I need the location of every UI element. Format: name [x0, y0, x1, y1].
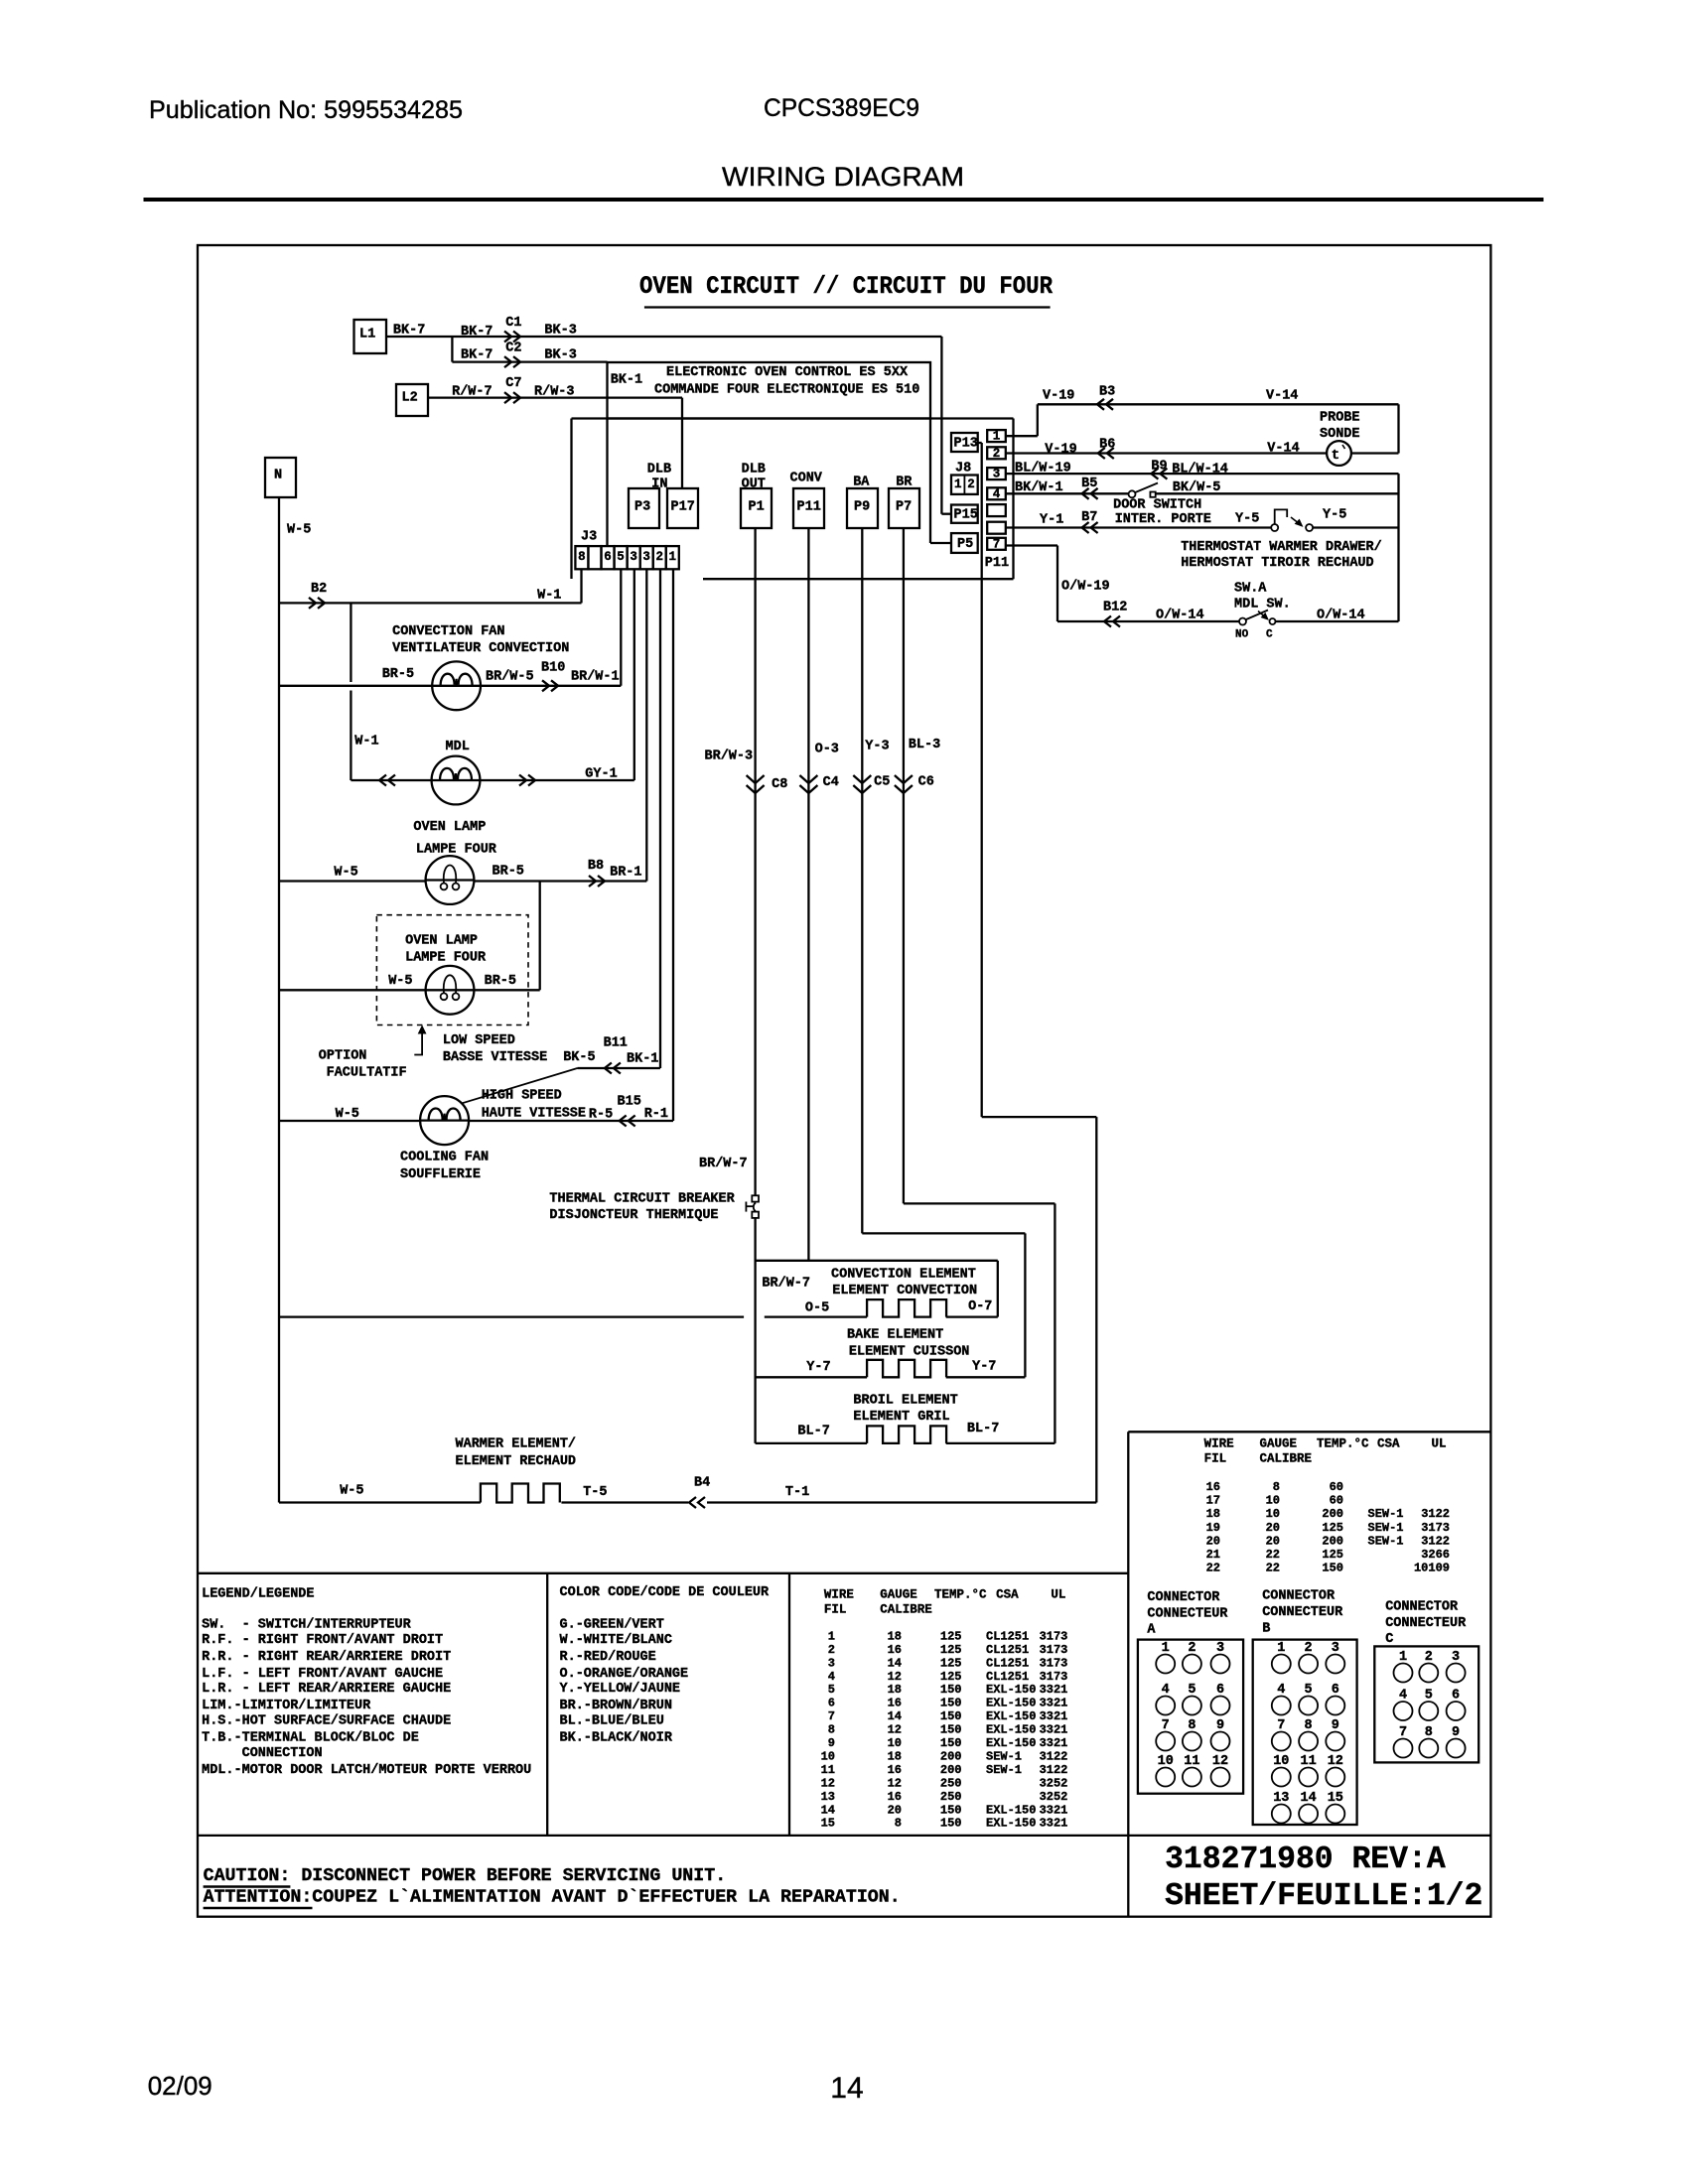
svg-text:SOUFFLERIE: SOUFFLERIE	[400, 1167, 481, 1182]
svg-text:MDL.-MOTOR DOOR LATCH/MOTEUR P: MDL.-MOTOR DOOR LATCH/MOTEUR PORTE VERRO…	[202, 1763, 531, 1778]
svg-text:2: 2	[655, 550, 663, 564]
svg-text:W-5: W-5	[334, 866, 357, 881]
dashed option box	[376, 915, 528, 1025]
wire broil element left BL-7	[756, 1442, 868, 1444]
svg-text:3173: 3173	[1421, 1521, 1450, 1535]
svg-text:T.B.-TERMINAL BLOCK/BLOC DE: T.B.-TERMINAL BLOCK/BLOC DE	[202, 1731, 419, 1746]
svg-text:12: 12	[888, 1670, 902, 1684]
svg-text:CALIBRE: CALIBRE	[1260, 1451, 1313, 1465]
svg-text:SHEET/FEUILLE:1/2: SHEET/FEUILLE:1/2	[1165, 1879, 1482, 1914]
wire BK-7 branch to C2	[452, 360, 607, 362]
svg-text:10: 10	[888, 1736, 902, 1750]
svg-text:1: 1	[828, 1629, 835, 1643]
svg-text:OVEN LAMP: OVEN LAMP	[413, 820, 486, 835]
svg-text:L2: L2	[402, 390, 418, 405]
table box left edge	[1127, 1432, 1129, 1916]
diagram title underline	[644, 306, 1051, 308]
svg-text:P9: P9	[854, 499, 870, 514]
svg-text:CAUTION: DISCONNECT POWER BEFO: CAUTION: DISCONNECT POWER BEFORE SERVICI…	[204, 1866, 727, 1886]
terminal L2	[396, 384, 428, 416]
svg-text:BL/W-14: BL/W-14	[1172, 462, 1228, 477]
svg-text:SW. - SWITCH/INTERRUPTEUR: SW. - SWITCH/INTERRUPTEUR	[202, 1618, 412, 1633]
wire L1 BK-7 to C1	[386, 336, 941, 338]
svg-text:Y-3: Y-3	[865, 740, 889, 754]
svg-text:20: 20	[1266, 1521, 1280, 1535]
svg-text:CSA: CSA	[996, 1587, 1019, 1601]
probe sensor	[1327, 441, 1351, 466]
svg-text:B7: B7	[1081, 510, 1097, 525]
svg-text:CL1251: CL1251	[986, 1643, 1029, 1657]
svg-text:P17: P17	[671, 499, 695, 514]
wire P11 bottom bus	[703, 578, 1014, 580]
svg-text:B2: B2	[311, 582, 327, 597]
motor M1 convection fan	[432, 661, 481, 710]
svg-text:200: 200	[1322, 1507, 1343, 1521]
svg-text:V-14: V-14	[1267, 441, 1299, 456]
svg-text:20: 20	[888, 1803, 902, 1817]
plug P5	[951, 533, 978, 553]
svg-text:3266: 3266	[1421, 1548, 1450, 1562]
svg-text:21: 21	[1206, 1548, 1220, 1562]
wire R/W-3 down to P17	[681, 398, 683, 488]
svg-text:16: 16	[888, 1643, 902, 1657]
wire right bus V	[1397, 474, 1399, 621]
svg-text:O/W-19: O/W-19	[1061, 579, 1110, 594]
wire bake element left Y-7	[756, 1376, 868, 1378]
svg-text:16: 16	[888, 1697, 902, 1710]
svg-text:W-5: W-5	[340, 1484, 363, 1499]
svg-text:2: 2	[967, 478, 975, 491]
svg-text:C: C	[1266, 629, 1273, 641]
svg-text:INTER. PORTE: INTER. PORTE	[1115, 512, 1211, 527]
svg-text:SEW-1: SEW-1	[986, 1763, 1022, 1777]
svg-text:BK-7: BK-7	[461, 347, 492, 362]
svg-text:BK/W-5: BK/W-5	[1173, 480, 1221, 495]
svg-text:BK-1: BK-1	[627, 1051, 658, 1066]
connector B pin chart	[1253, 1640, 1357, 1825]
svg-text:TEMP.°C: TEMP.°C	[934, 1587, 987, 1601]
svg-text:BK/W-1: BK/W-1	[1015, 480, 1063, 495]
svg-text:BK.-BLACK/NOIR: BK.-BLACK/NOIR	[560, 1731, 673, 1746]
wire Y-5 right	[1313, 526, 1399, 528]
svg-text:COMMANDE FOUR ELECTRONIQUE ES: COMMANDE FOUR ELECTRONIQUE ES 510	[654, 382, 919, 397]
svg-text:22: 22	[1266, 1562, 1280, 1575]
svg-text:BK-7: BK-7	[393, 323, 425, 338]
svg-text:LIM.-LIMITOR/LIMITEUR: LIM.-LIMITOR/LIMITEUR	[202, 1699, 371, 1713]
svg-text:LAMPE FOUR: LAMPE FOUR	[405, 951, 487, 966]
svg-text:P13: P13	[954, 436, 978, 451]
connector A pin chart	[1138, 1640, 1243, 1794]
svg-text:60: 60	[1330, 1494, 1343, 1508]
svg-text:02/09: 02/09	[148, 2071, 212, 2101]
svg-text:BL-7: BL-7	[797, 1425, 829, 1439]
svg-text:SEW-1: SEW-1	[1368, 1507, 1404, 1521]
svg-text:3173: 3173	[1040, 1643, 1068, 1657]
svg-text:18: 18	[888, 1629, 902, 1643]
wire conv element right O-7	[946, 1315, 998, 1317]
svg-text:16: 16	[888, 1790, 902, 1804]
connector C5	[853, 775, 871, 793]
wire low speed diagonal	[462, 1068, 577, 1103]
svg-text:150: 150	[940, 1736, 962, 1750]
svg-text:6: 6	[604, 550, 612, 564]
svg-text:C6: C6	[918, 774, 934, 789]
svg-text:Y-5: Y-5	[1235, 511, 1259, 526]
svg-text:B4: B4	[694, 1475, 710, 1490]
svg-text:P5: P5	[957, 537, 973, 552]
svg-text:TEMP.°C: TEMP.°C	[1317, 1436, 1369, 1450]
svg-text:3173: 3173	[1040, 1629, 1068, 1643]
svg-text:BL-7: BL-7	[967, 1422, 999, 1436]
wire warmer middle T-5	[561, 1501, 688, 1503]
svg-text:3321: 3321	[1040, 1683, 1068, 1697]
svg-text:PROBE: PROBE	[1320, 410, 1360, 425]
svg-text:A: A	[1147, 1623, 1156, 1638]
svg-text:2: 2	[828, 1643, 835, 1657]
wire lamp1 right BR-5	[474, 880, 646, 882]
svg-text:O/W-14: O/W-14	[1317, 608, 1365, 622]
svg-text:150: 150	[940, 1803, 962, 1817]
svg-text:N: N	[274, 468, 282, 482]
svg-text:O-5: O-5	[805, 1300, 829, 1315]
svg-text:COLOR CODE/CODE DE COULEUR: COLOR CODE/CODE DE COULEUR	[560, 1585, 771, 1600]
svg-text:O/W-14: O/W-14	[1156, 608, 1204, 622]
motor M2 cooling fan	[420, 1096, 469, 1145]
svg-text:W.-WHITE/BLANC: W.-WHITE/BLANC	[560, 1633, 672, 1648]
wire BK-1 vertical to J3	[606, 419, 608, 547]
svg-text:CONNECTEUR: CONNECTEUR	[1147, 1606, 1228, 1621]
svg-text:150: 150	[940, 1683, 962, 1697]
svg-text:CL1251: CL1251	[986, 1629, 1029, 1643]
svg-text:3321: 3321	[1040, 1723, 1068, 1737]
svg-text:4: 4	[828, 1670, 835, 1684]
svg-text:P11: P11	[985, 556, 1009, 571]
terminal L1	[354, 320, 387, 353]
svg-text:1: 1	[954, 478, 962, 491]
attention underline	[204, 1907, 313, 1910]
svg-text:318271980 REV:A: 318271980 REV:A	[1165, 1843, 1446, 1877]
svg-text:CONNECTEUR: CONNECTEUR	[1385, 1616, 1467, 1631]
wire P1 vertical DLB OUT	[754, 528, 756, 1195]
plug P9	[847, 488, 878, 528]
svg-text:ATTENTION:COUPEZ L`ALIMENTATIO: ATTENTION:COUPEZ L`ALIMENTATION AVANT D`…	[204, 1888, 901, 1908]
svg-text:ELEMENT CONVECTION: ELEMENT CONVECTION	[832, 1284, 977, 1298]
caution band top line	[198, 1835, 1490, 1837]
svg-text:12: 12	[888, 1723, 902, 1737]
svg-text:P11: P11	[797, 499, 821, 514]
wire warmer right T-1	[707, 1501, 1096, 1503]
svg-text:P3: P3	[634, 499, 650, 514]
wire pin2 to probe	[1006, 452, 1327, 454]
svg-text:9: 9	[828, 1736, 835, 1750]
door switch S1	[1129, 490, 1136, 497]
svg-text:3321: 3321	[1040, 1697, 1068, 1710]
svg-text:17: 17	[1206, 1494, 1220, 1508]
svg-text:3: 3	[993, 468, 1001, 481]
svg-text:CL1251: CL1251	[986, 1670, 1029, 1684]
svg-text:C5: C5	[874, 774, 890, 789]
svg-text:T-1: T-1	[785, 1485, 809, 1500]
svg-text:B8: B8	[588, 859, 604, 874]
heating element warmer	[481, 1484, 560, 1503]
svg-text:WIRE: WIRE	[824, 1587, 854, 1601]
lamp DS2 oven lamp optional	[426, 966, 475, 1015]
wire J3 pin2 drop BK-1	[659, 569, 661, 1068]
svg-text:HERMOSTAT TIROIR RECHAUD: HERMOSTAT TIROIR RECHAUD	[1181, 556, 1373, 571]
svg-text:UL: UL	[1432, 1436, 1447, 1450]
svg-text:O-3: O-3	[815, 742, 839, 756]
svg-text:13: 13	[821, 1790, 835, 1804]
svg-text:BR-5: BR-5	[492, 864, 524, 879]
svg-text:DLB: DLB	[742, 462, 766, 477]
svg-text:WARMER ELEMENT/: WARMER ELEMENT/	[456, 1436, 577, 1451]
svg-text:B: B	[1262, 1621, 1270, 1636]
svg-text:HIGH SPEED: HIGH SPEED	[482, 1088, 562, 1103]
caution underline	[204, 1885, 291, 1888]
svg-text:14: 14	[821, 1803, 835, 1817]
svg-text:BR-5: BR-5	[485, 974, 516, 989]
svg-text:BK-3: BK-3	[544, 323, 576, 338]
svg-text:CALIBRE: CALIBRE	[880, 1603, 932, 1617]
svg-text:CONNECTOR: CONNECTOR	[1147, 1590, 1220, 1605]
conv element wire box	[756, 1260, 998, 1262]
connector C4	[799, 775, 817, 793]
header underline	[144, 199, 1543, 202]
svg-text:125: 125	[1322, 1548, 1343, 1562]
svg-text:CONNECTION: CONNECTION	[202, 1746, 323, 1761]
svg-text:BL.-BLUE/BLEU: BL.-BLUE/BLEU	[560, 1714, 664, 1729]
svg-text:UL: UL	[1051, 1587, 1065, 1601]
svg-text:BK-3: BK-3	[544, 347, 576, 362]
wire low speed BK	[578, 1067, 660, 1069]
svg-text:14: 14	[888, 1709, 902, 1723]
legend/colorcode divider	[546, 1573, 548, 1836]
switch SW.A MDL	[1239, 618, 1246, 625]
svg-text:125: 125	[1322, 1521, 1343, 1535]
wire lamp2 left W-5	[279, 989, 426, 991]
svg-text:EXL-150: EXL-150	[986, 1803, 1036, 1817]
thermostat warmer drawer switch	[1271, 524, 1278, 531]
svg-text:18: 18	[1206, 1507, 1220, 1521]
svg-text:BL/W-19: BL/W-19	[1015, 461, 1071, 476]
svg-text:L.R. - LEFT REAR/ARRIERE GAUCH: L.R. - LEFT REAR/ARRIERE GAUCHE	[202, 1682, 451, 1697]
wire lamp junction vertical	[539, 882, 541, 991]
svg-text:C8: C8	[772, 777, 787, 792]
svg-text:HAUTE VITESSE: HAUTE VITESSE	[482, 1106, 586, 1121]
svg-text:3: 3	[630, 550, 637, 564]
svg-text:BAKE ELEMENT: BAKE ELEMENT	[847, 1327, 943, 1342]
svg-text:EXL-150: EXL-150	[986, 1683, 1036, 1697]
wire high speed R	[469, 1120, 673, 1122]
svg-text:BK-5: BK-5	[563, 1050, 595, 1065]
svg-text:C: C	[1385, 1632, 1393, 1647]
svg-text:1: 1	[668, 550, 676, 564]
svg-text:CONNECTEUR: CONNECTEUR	[1262, 1605, 1343, 1620]
connector P11 pin boxes	[987, 430, 1006, 442]
svg-text:THERMOSTAT WARMER DRAWER/: THERMOSTAT WARMER DRAWER/	[1181, 540, 1382, 555]
wire lamp1 left W-5	[279, 880, 426, 882]
wire broil element right	[946, 1442, 1055, 1444]
wire P13 route down-right-down to warmer wire	[981, 443, 983, 1117]
svg-text:125: 125	[940, 1670, 962, 1684]
legend section top line	[198, 1572, 1128, 1574]
svg-text:3321: 3321	[1040, 1709, 1068, 1723]
svg-text:T-5: T-5	[583, 1485, 607, 1500]
wire J3 pin6 drop BR-1	[645, 569, 647, 881]
svg-text:20: 20	[1206, 1534, 1220, 1548]
svg-text:DLB: DLB	[647, 462, 671, 477]
svg-text:LOW SPEED: LOW SPEED	[443, 1033, 515, 1048]
wire neutral vertical W-5	[278, 497, 280, 1503]
option leader arrow	[414, 1030, 422, 1055]
svg-text:COOLING FAN: COOLING FAN	[400, 1150, 489, 1164]
svg-text:W-1: W-1	[537, 588, 561, 603]
svg-text:VENTILATEUR CONVECTION: VENTILATEUR CONVECTION	[392, 641, 569, 656]
wire pin4 BK/W right	[1156, 492, 1399, 494]
svg-text:BROIL ELEMENT: BROIL ELEMENT	[853, 1394, 957, 1409]
svg-text:B3: B3	[1099, 384, 1115, 399]
svg-text:SEW-1: SEW-1	[986, 1749, 1022, 1763]
wire P9 vertical BA	[861, 528, 863, 1233]
svg-text:LAMPE FOUR: LAMPE FOUR	[416, 842, 497, 857]
svg-text:3122: 3122	[1040, 1763, 1068, 1777]
svg-text:Y-7: Y-7	[806, 1360, 830, 1375]
svg-text:10: 10	[1266, 1507, 1280, 1521]
svg-text:3252: 3252	[1040, 1776, 1068, 1790]
svg-text:BK-1: BK-1	[611, 372, 642, 387]
svg-text:CONNECTOR: CONNECTOR	[1262, 1589, 1336, 1604]
svg-text:OPTION: OPTION	[319, 1049, 367, 1064]
wire MDL branch vertical	[350, 603, 352, 682]
svg-text:4: 4	[993, 487, 1001, 501]
svg-text:3173: 3173	[1040, 1670, 1068, 1684]
svg-text:BR/W-1: BR/W-1	[571, 670, 620, 685]
svg-text:P7: P7	[896, 499, 912, 514]
svg-text:3122: 3122	[1421, 1507, 1450, 1521]
svg-text:WIRE: WIRE	[1204, 1436, 1234, 1450]
wire bus y=421 under EOC	[572, 417, 1014, 419]
svg-text:EXL-150: EXL-150	[986, 1723, 1036, 1737]
svg-text:MDL: MDL	[446, 740, 470, 754]
wire right drop x=1020 to P11 bus	[1012, 419, 1014, 580]
svg-text:8: 8	[578, 550, 586, 564]
wire EOC box to P5	[929, 419, 931, 544]
wire conv fan left BR-5	[279, 685, 432, 687]
svg-text:LEGEND/LEGENDE: LEGEND/LEGENDE	[202, 1587, 314, 1602]
wire O/W-14 right	[1276, 620, 1399, 622]
connector MDL right	[519, 775, 535, 786]
wire cooling fan left W-5	[279, 1120, 420, 1122]
svg-text:DISJONCTEUR THERMIQUE: DISJONCTEUR THERMIQUE	[549, 1208, 718, 1223]
wire P11 vertical CONV	[807, 528, 809, 1261]
connector J8 pins 1 2	[951, 476, 978, 494]
svg-text:10: 10	[821, 1749, 835, 1763]
heating element broil	[867, 1426, 946, 1443]
svg-text:P15: P15	[954, 507, 978, 522]
svg-text:150: 150	[940, 1709, 962, 1723]
svg-text:CSA: CSA	[1377, 1436, 1400, 1450]
svg-text:G.-GREEN/VERT: G.-GREEN/VERT	[560, 1618, 664, 1633]
svg-text:t: t	[1332, 448, 1339, 464]
svg-text:O-7: O-7	[968, 1299, 992, 1314]
plug P1	[741, 488, 772, 528]
plug P13	[951, 433, 978, 452]
svg-text:Y-7: Y-7	[972, 1360, 996, 1375]
svg-text:C1: C1	[505, 316, 521, 331]
wire lamp2 right BR-5	[474, 989, 539, 991]
connector C6	[895, 775, 913, 793]
wire pin7 to O/W	[1006, 544, 1057, 546]
svg-text:W-5: W-5	[287, 522, 311, 537]
wire pin1 to probe	[1006, 435, 1038, 437]
wire warmer left W-5	[279, 1501, 481, 1503]
svg-text:10109: 10109	[1414, 1562, 1450, 1575]
svg-text:NO: NO	[1235, 629, 1249, 641]
thermal circuit breaker CB1	[752, 1195, 759, 1201]
svg-text:7: 7	[993, 537, 1001, 551]
svg-text:8: 8	[895, 1817, 902, 1831]
svg-text:W-5: W-5	[336, 1107, 359, 1122]
svg-text:J3: J3	[581, 529, 597, 544]
svg-text:SW.A: SW.A	[1234, 581, 1267, 596]
svg-text:3252: 3252	[1040, 1790, 1068, 1804]
wire B2 W-1	[279, 602, 582, 604]
svg-text:Publication No: 5995534285: Publication No: 5995534285	[149, 96, 463, 124]
svg-text:V-19: V-19	[1045, 443, 1076, 458]
svg-text:L.F. - LEFT FRONT/AVANT GAUCHE: L.F. - LEFT FRONT/AVANT GAUCHE	[202, 1667, 443, 1682]
svg-text:22: 22	[1206, 1562, 1220, 1575]
svg-text:SONDE: SONDE	[1320, 427, 1360, 442]
plug P17	[667, 488, 698, 528]
wire conv fan right	[481, 685, 621, 687]
lamp DS1 oven lamp	[426, 856, 475, 904]
svg-text:18: 18	[888, 1683, 902, 1697]
svg-text:EXL-150: EXL-150	[986, 1697, 1036, 1710]
svg-text:BK-7: BK-7	[461, 325, 492, 340]
svg-text:200: 200	[1322, 1534, 1343, 1548]
svg-text:FACULTATIF: FACULTATIF	[327, 1066, 407, 1081]
svg-text:3321: 3321	[1040, 1803, 1068, 1817]
svg-text:14: 14	[830, 2072, 863, 2105]
svg-text:BR-5: BR-5	[382, 667, 414, 682]
connector C pin chart	[1374, 1646, 1478, 1762]
svg-text:B10: B10	[541, 660, 565, 675]
wire J3 pin1 drop R-1	[672, 569, 674, 1121]
svg-text:7: 7	[828, 1709, 835, 1723]
svg-text:60: 60	[1330, 1480, 1343, 1494]
svg-text:CONV: CONV	[790, 471, 823, 485]
svg-text:Y-5: Y-5	[1323, 507, 1346, 522]
svg-text:1: 1	[993, 430, 1001, 444]
wire J3 pin5 drop to B10	[620, 569, 622, 686]
electronic oven control box U1	[608, 362, 931, 419]
svg-text:J8: J8	[955, 461, 971, 476]
svg-text:12: 12	[821, 1776, 835, 1790]
svg-text:150: 150	[940, 1723, 962, 1737]
svg-text:EXL-150: EXL-150	[986, 1817, 1036, 1831]
svg-text:BR/W-3: BR/W-3	[705, 750, 754, 764]
table box top edge	[1128, 1431, 1490, 1433]
wire branch L1 down to C2 row	[451, 337, 453, 362]
wire C1 BK-3 down to P15	[940, 337, 942, 514]
svg-text:125: 125	[940, 1629, 962, 1643]
svg-text:WIRING DIAGRAM: WIRING DIAGRAM	[722, 162, 964, 192]
svg-text:BR-1: BR-1	[610, 866, 641, 881]
wire Y-1 left	[1006, 526, 1271, 528]
svg-text:EXL-150: EXL-150	[986, 1709, 1036, 1723]
svg-text:R/W-7: R/W-7	[452, 384, 492, 399]
svg-text:CONNECTOR: CONNECTOR	[1385, 1600, 1459, 1615]
